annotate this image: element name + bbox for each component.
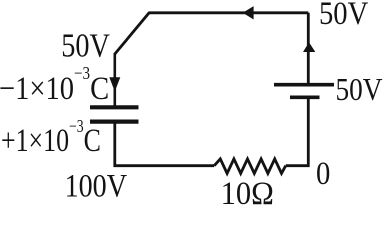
svg-text:100V: 100V xyxy=(65,168,127,205)
svg-text:−1×10−3C: −1×10−3C xyxy=(0,63,109,107)
wire: left vertical upper (to capacitor top plate) xyxy=(114,53,117,106)
arrow down on left wire xyxy=(109,77,120,91)
arrow on top wire (pointing left) xyxy=(243,6,254,19)
capacitor C top plate xyxy=(90,105,139,109)
battery short plate (bottom) xyxy=(290,95,320,99)
svg-text:0: 0 xyxy=(316,154,330,191)
resistor R 10ohm zigzag xyxy=(214,159,286,174)
wire: diagonal top-left xyxy=(115,12,150,54)
battery long plate (top) xyxy=(274,83,334,87)
wire: bottom right horizontal + right vertical lower (to battery short plate) xyxy=(286,98,309,166)
svg-text:10Ω: 10Ω xyxy=(221,175,274,205)
svg-text:50V: 50V xyxy=(319,0,368,31)
svg-text:50V: 50V xyxy=(61,26,110,64)
svg-text:+1×10−3C: +1×10−3C xyxy=(1,118,101,159)
wire: left vertical lower + bottom left horizontal xyxy=(115,123,214,166)
wire: top horizontal xyxy=(149,11,308,14)
wire: right vertical upper (battery to top wire) xyxy=(307,13,310,85)
capacitor C bottom plate xyxy=(90,119,139,123)
svg-text:50V: 50V xyxy=(336,72,383,108)
arrow up on right wire xyxy=(303,42,315,52)
